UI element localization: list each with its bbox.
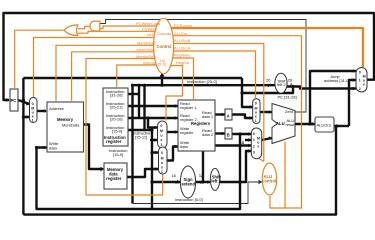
- registers box: [178, 100, 215, 151]
- wire RegDst mux output to write register: [167, 131, 178, 133]
- wire MDR output to MemtoReg mux input1: [127, 169, 159, 177]
- svg-text:left 2: left 2: [277, 82, 286, 87]
- svg-text:Address: Address: [49, 106, 64, 111]
- wire control IRWrite to instruction register: [117, 65, 160, 87]
- ALU control ellipse: [262, 163, 276, 195]
- svg-text:MemtoReg: MemtoReg: [136, 54, 156, 59]
- svg-text:0: 0: [255, 102, 257, 106]
- svg-text:Instruction [25-0]: Instruction [25-0]: [187, 79, 217, 84]
- svg-text:data 2: data 2: [202, 132, 214, 137]
- wire Instruction[15-0] row stub: [128, 129, 152, 131]
- bit width ticks: [176, 83, 292, 183]
- ALU: [272, 104, 295, 144]
- svg-text:PCWrite: PCWrite: [142, 27, 158, 32]
- svg-text:[25-21]: [25-21]: [110, 105, 122, 110]
- mux ALUSrcB: [251, 128, 261, 159]
- svg-text:register: register: [180, 130, 194, 135]
- wire Instruction[25-21] to Read register 1: [128, 105, 178, 107]
- svg-text:x: x: [257, 145, 259, 149]
- wire sign extend input: [152, 181, 181, 183]
- svg-text:x: x: [255, 115, 257, 119]
- control unit ellipse: [154, 18, 174, 73]
- wire control ALUSrcB to mux select: [168, 44, 264, 162]
- svg-text:x: x: [161, 165, 163, 169]
- wire ALUOut to PCSource mux input1: [349, 80, 356, 126]
- svg-text:[15-0]: [15-0]: [112, 129, 122, 134]
- svg-text:Registers: Registers: [191, 121, 211, 126]
- svg-text:16: 16: [172, 173, 177, 178]
- wire shift left 2 bottom output to ALUSrcB mux input3: [220, 151, 252, 182]
- svg-text:1: 1: [253, 138, 255, 142]
- svg-text:[20-16]: [20-16]: [110, 117, 122, 122]
- svg-text:ALUOut: ALUOut: [317, 123, 332, 128]
- svg-text:PC: PC: [11, 98, 17, 103]
- register B: [225, 128, 232, 139]
- wire sign extend riser to ALUSrcB mux input2: [196, 146, 252, 183]
- svg-text:PCSource: PCSource: [174, 23, 193, 28]
- svg-text:left 2: left 2: [211, 179, 221, 184]
- svg-text:28: 28: [288, 78, 293, 83]
- svg-text:Control: Control: [157, 44, 172, 49]
- svg-text:0: 0: [160, 124, 162, 128]
- svg-text:0: 0: [32, 102, 34, 106]
- PC register: [10, 89, 18, 111]
- wire IR vertical riser [25-0] and [5-0]: [131, 85, 133, 203]
- wire ALUSrcB mux output to ALU: [262, 138, 272, 140]
- wire sign extend to shift left 2 bottom: [203, 181, 210, 183]
- svg-text:[15-0]: [15-0]: [113, 152, 123, 157]
- wire control PCSource to mux select: [168, 28, 363, 67]
- svg-text:2: 2: [253, 144, 255, 148]
- svg-text:Outputs: Outputs: [157, 31, 171, 36]
- wire memory address from mux: [37, 110, 46, 112]
- svg-text:MemRead: MemRead: [137, 41, 155, 46]
- wire Instruction[5-0] to ALU control: [133, 182, 261, 204]
- svg-text:[5-0]: [5-0]: [158, 62, 166, 67]
- wire AND output to OR input: [78, 26, 90, 28]
- AND gate: [90, 21, 100, 31]
- OR gate: [64, 25, 78, 36]
- wire control MemRead to memory: [56, 45, 160, 101]
- svg-text:1: 1: [160, 143, 162, 147]
- svg-text:x: x: [160, 138, 162, 142]
- wire Read data 1 to A: [215, 113, 225, 115]
- svg-text:register: register: [106, 139, 122, 144]
- wire ALUOut stub to MemtoReg mux input0: [152, 151, 159, 153]
- svg-text:RegWrite: RegWrite: [174, 52, 191, 57]
- wire OR output to PC write enable: [15, 30, 64, 88]
- wire control RegWrite to registers: [168, 58, 194, 99]
- ALUOut register: [315, 117, 334, 132]
- wire Zero to AND gate: [100, 20, 306, 113]
- wire A to ALUSrcA mux input1: [232, 115, 253, 119]
- wire ALUOut output: [334, 125, 349, 127]
- wire B to ALUSrcB mux input0: [232, 133, 251, 135]
- shift left 2 bottom ellipse: [210, 168, 219, 190]
- svg-text:control: control: [262, 179, 276, 184]
- wire B loop to memory write data: [37, 134, 241, 209]
- wire control ALUSrcA to mux select: [168, 51, 256, 98]
- wire PC output to IorD mux and up to top bus: [18, 100, 30, 104]
- svg-text:0: 0: [161, 151, 163, 155]
- wire IorD mux input1 stub: [23, 116, 29, 118]
- svg-text:data 1: data 1: [202, 114, 214, 119]
- wire shift left 2 output to jump address: [287, 87, 356, 89]
- svg-text:ALU: ALU: [276, 121, 285, 126]
- wire PC bus top horizontal: [23, 77, 242, 79]
- wire PC-input top loop from PCSource mux output: [4, 13, 375, 100]
- wire control PCWriteCond to AND gate: [100, 26, 158, 29]
- arrowheads at inputs: [6, 69, 356, 184]
- svg-text:ALUSrcA: ALUSrcA: [174, 45, 191, 50]
- wire control ALUOp to ALU control: [168, 36, 302, 208]
- wire PC to ALUSrcA mux input0: [242, 78, 253, 107]
- wire control RegDst to mux select: [166, 66, 183, 121]
- svg-text:PC [31-28]: PC [31-28]: [278, 95, 297, 100]
- wire constant 4 to ALUSrcB mux input1: [245, 139, 251, 141]
- wire IR riser 3: [143, 85, 145, 130]
- wire control MemtoReg around bottom to mux: [86, 59, 163, 196]
- svg-text:address [31-0]: address [31-0]: [324, 78, 350, 83]
- svg-text:M: M: [161, 157, 164, 161]
- svg-text:[31-26]: [31-26]: [110, 93, 122, 98]
- wire PC[31-28] to jump address: [242, 87, 293, 94]
- svg-text:Instruction [5-0]: Instruction [5-0]: [175, 197, 203, 202]
- svg-text:B: B: [227, 133, 230, 138]
- svg-text:2: 2: [359, 87, 361, 91]
- svg-text:Zero: Zero: [285, 109, 294, 114]
- wire Instruction[20-16] branch to RegDst mux input0: [148, 118, 158, 128]
- svg-text:IorD: IorD: [147, 32, 155, 37]
- wire Instruction[25-0] bus to shift left 2: [133, 84, 276, 86]
- svg-text:MemData: MemData: [62, 123, 80, 128]
- wire control IorD to mux select: [34, 38, 159, 99]
- wire ALU result riser to PCSource mux input0: [310, 71, 356, 124]
- svg-text:register: register: [106, 176, 122, 181]
- wire Instruction[20-16] to Read register 2: [128, 117, 178, 119]
- svg-text:M: M: [160, 129, 163, 133]
- svg-text:extend: extend: [182, 182, 196, 187]
- svg-text:ALUOp: ALUOp: [174, 31, 188, 36]
- wire bottom outer loop ALUOut feedback: [23, 126, 336, 215]
- svg-text:PCWriteCond: PCWriteCond: [136, 21, 160, 26]
- wire Read data 2 to B: [215, 132, 225, 134]
- svg-text:1: 1: [32, 119, 34, 123]
- svg-text:1: 1: [359, 79, 361, 83]
- svg-text:Memory: Memory: [57, 117, 74, 122]
- svg-text:data: data: [180, 144, 189, 149]
- wire PC vertical riser left: [22, 78, 24, 215]
- svg-text:RegDst: RegDst: [176, 60, 190, 65]
- wire MemtoReg mux output to Registers write data: [167, 147, 178, 161]
- svg-text:0: 0: [359, 71, 361, 75]
- memory box: [47, 102, 84, 152]
- svg-text:u: u: [160, 134, 162, 138]
- svg-text:MemWrite: MemWrite: [137, 47, 156, 52]
- svg-text:3: 3: [253, 150, 255, 154]
- svg-text:result: result: [286, 122, 297, 127]
- mux PCSource: [356, 68, 367, 93]
- register A: [225, 109, 232, 120]
- svg-text:ALUSrcB: ALUSrcB: [174, 38, 191, 43]
- wire Instruction[15-0] riser to sign extend: [151, 130, 153, 209]
- wire ALUSrcA mux output to ALU: [260, 111, 272, 113]
- wire Instruction[15-11] to RegDst mux input1: [150, 139, 158, 141]
- wire MemData to memory data register: [84, 125, 103, 170]
- wire control MemWrite to memory: [72, 52, 160, 101]
- svg-text:32: 32: [199, 173, 204, 178]
- svg-text:0: 0: [253, 132, 255, 136]
- svg-text:[15-11]: [15-11]: [135, 135, 147, 140]
- svg-text:data: data: [49, 146, 58, 151]
- svg-text:register 1: register 1: [180, 105, 197, 110]
- svg-text:x: x: [363, 83, 365, 87]
- wire ALU control output to ALU: [284, 142, 286, 209]
- wire Instruction[31-26] to Control with arrow: [161, 76, 163, 86]
- svg-text:26: 26: [266, 78, 271, 83]
- svg-text:1: 1: [255, 119, 257, 123]
- svg-text:IRWrite: IRWrite: [143, 60, 157, 65]
- wire Instruction[31-26] stub: [128, 93, 139, 95]
- svg-text:A: A: [227, 114, 230, 119]
- mux RegDst: [158, 121, 168, 148]
- wire ALU result to ALUOut: [295, 123, 315, 125]
- shift left 2 top ellipse: [275, 73, 287, 93]
- svg-text:1: 1: [161, 170, 163, 174]
- sign extend ellipse: [180, 166, 195, 198]
- mux MemtoReg: [159, 147, 168, 174]
- wire ALUSrcB hook into mux bottom: [258, 158, 264, 162]
- wire IR riser 2: [138, 85, 140, 118]
- mux IorD: [30, 98, 38, 123]
- wire control PCWrite to OR gate: [78, 31, 158, 33]
- mux ALUSrcA: [253, 99, 260, 124]
- instruction register box: [103, 88, 128, 146]
- memory data register box: [104, 163, 127, 189]
